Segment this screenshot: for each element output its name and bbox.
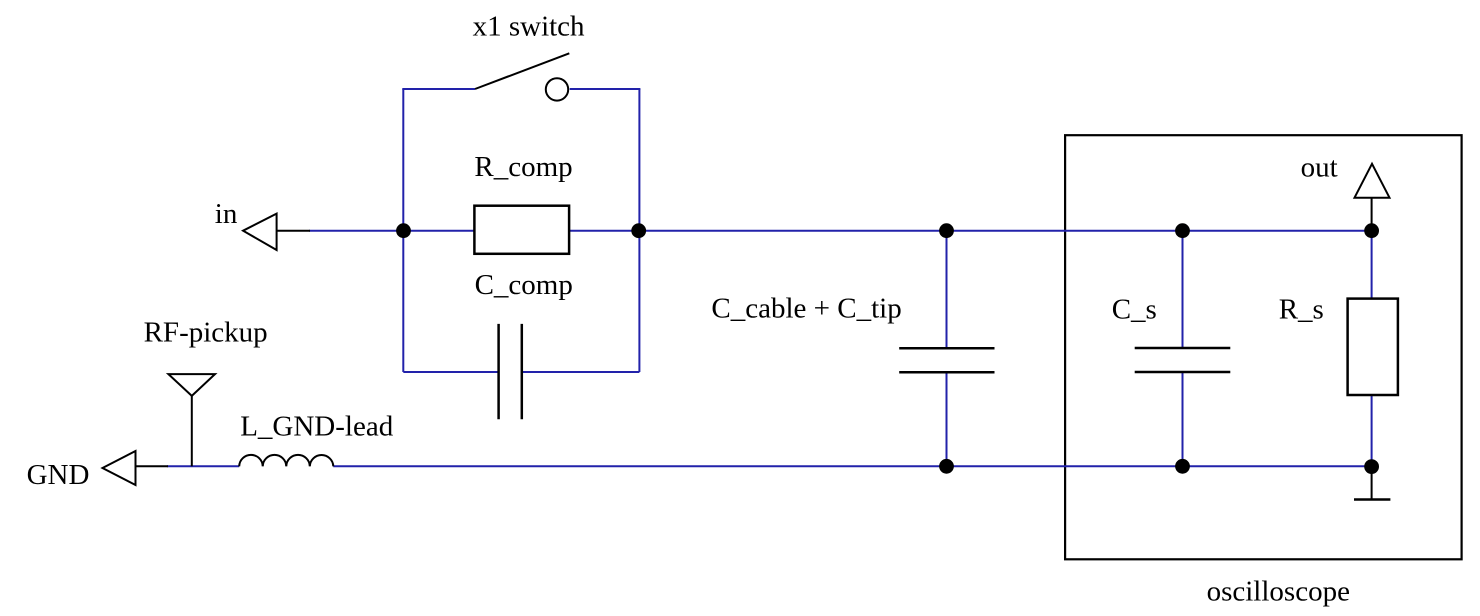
wire: C_s bottom lead (1182, 372, 1184, 466)
resistor R_s (1348, 299, 1398, 395)
label: C_cable + C_tip (711, 293, 901, 325)
wire: R_s top lead (1371, 231, 1373, 299)
svg-text:GND: GND (27, 459, 90, 491)
wire: loop top-left segment (402, 88, 475, 90)
wire: node D to node E (1183, 230, 1372, 232)
label: oscilloscope (1207, 576, 1350, 608)
label: RF-pickup (144, 316, 268, 348)
label: C_s (1112, 293, 1157, 325)
node F (C_cable bottom) (939, 459, 954, 474)
wire: R_comp to node B (569, 230, 639, 232)
node C (C_cable top) (939, 223, 954, 238)
wire: C_cable bottom lead (946, 372, 948, 466)
svg-text:RF-pickup: RF-pickup (144, 316, 268, 348)
capacitor C_cable + C_tip (899, 348, 994, 372)
switch S1 contact circle (546, 78, 568, 100)
label: out (1301, 151, 1338, 183)
wire: loop left vertical (402, 89, 404, 372)
label: R_comp (474, 151, 572, 183)
svg-text:R_s: R_s (1279, 293, 1324, 325)
wire: ground bus GND arrow to inductor (167, 465, 239, 467)
svg-text:C_comp: C_comp (475, 269, 573, 301)
node E (R_s / out) (1364, 223, 1379, 238)
terminal arrow: GND (103, 451, 169, 485)
wire: node C to node D (947, 230, 1183, 232)
wire: ground bus node G to node H (1183, 465, 1372, 467)
wire: loop bottom-left segment (403, 371, 498, 373)
svg-text:C_cable + C_tip: C_cable + C_tip (711, 293, 901, 325)
svg-text:out: out (1301, 151, 1338, 183)
wire: node A to R_comp (404, 230, 475, 232)
svg-text:x1 switch: x1 switch (473, 11, 585, 43)
wire: ground bus node F to node G (947, 465, 1183, 467)
svg-text:in: in (215, 198, 238, 230)
wire: loop bottom-right segment (522, 371, 640, 373)
wire: in lead to node A (309, 230, 405, 232)
wire: loop right vertical (638, 89, 640, 372)
label: in (215, 198, 238, 230)
ground symbol (1354, 467, 1390, 500)
wire: C_s top lead (1182, 231, 1184, 348)
wire: ground bus inductor to node F (333, 465, 946, 467)
svg-text:C_s: C_s (1112, 293, 1157, 325)
resistor R_comp (474, 206, 569, 254)
wire: C_cable top lead (946, 231, 948, 349)
svg-text:L_GND-lead: L_GND-lead (240, 411, 394, 443)
antenna RF-pickup (168, 374, 215, 466)
capacitor C_s (1135, 348, 1231, 372)
node A (in / compensation loop) (396, 223, 411, 238)
node H (R_s bottom / ground) (1364, 459, 1379, 474)
label: L_GND-lead (240, 411, 394, 443)
wire: R_s bottom lead (1371, 395, 1373, 467)
inductor L_GND-lead (239, 455, 333, 466)
wire: loop top-right segment (570, 88, 641, 90)
label: x1 switch (473, 11, 585, 43)
svg-text:R_comp: R_comp (474, 151, 572, 183)
terminal arrow: in (243, 214, 310, 250)
wire: node B to node C (639, 230, 947, 232)
switch S1 (x1 switch) lever (475, 53, 569, 89)
label: GND (27, 459, 90, 491)
node D (C_s top) (1175, 223, 1190, 238)
node G (C_s bottom) (1175, 459, 1190, 474)
label: R_s (1279, 293, 1324, 325)
capacitor C_comp (499, 324, 522, 419)
terminal arrow: out (1355, 164, 1390, 231)
oscilloscope enclosure box (1065, 135, 1462, 559)
label: C_comp (475, 269, 573, 301)
node B (loop right) (631, 223, 646, 238)
svg-text:oscilloscope: oscilloscope (1207, 576, 1350, 608)
